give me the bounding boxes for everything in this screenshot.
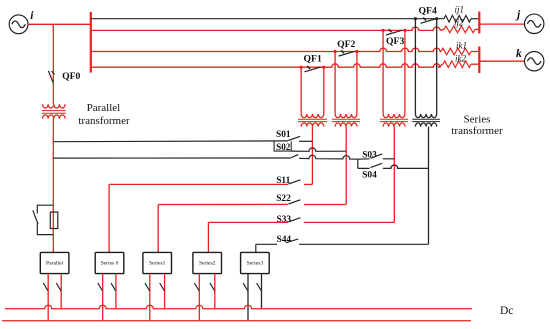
svg-text:QF4: QF4 [419,5,437,16]
svg-text:QF2: QF2 [337,39,355,50]
svg-text:S02: S02 [276,142,291,152]
svg-text:Parallel: Parallel [87,102,121,114]
svg-text:Parallel: Parallel [46,261,64,267]
svg-text:S11: S11 [276,176,290,186]
svg-text:S44: S44 [277,235,292,245]
svg-text:Series2: Series2 [199,261,216,267]
svg-text:S22: S22 [276,194,291,204]
svg-text:Series 0: Series 0 [101,261,119,267]
svg-text:Series1: Series1 [149,261,166,267]
svg-text:ik2: ik2 [455,53,466,63]
svg-text:transformer: transformer [451,125,503,137]
svg-text:ij2: ij2 [454,18,464,28]
svg-text:Series3: Series3 [247,261,264,267]
svg-text:transformer: transformer [78,115,130,127]
svg-text:S03: S03 [362,150,377,160]
svg-text:S01: S01 [276,130,291,140]
svg-text:k: k [516,48,522,60]
svg-text:QF3: QF3 [386,36,404,47]
svg-text:S04: S04 [362,170,377,180]
svg-text:Series: Series [464,114,491,126]
svg-text:ij1: ij1 [455,4,465,14]
svg-text:Dc: Dc [500,305,513,317]
svg-text:ik1: ik1 [456,41,467,51]
svg-text:S33: S33 [277,215,292,225]
svg-text:QF0: QF0 [62,71,80,82]
svg-text:QF1: QF1 [304,54,322,65]
